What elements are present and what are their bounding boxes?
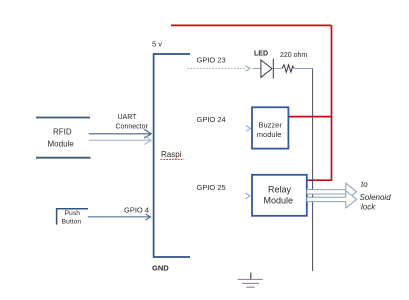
wire 5V branch to relay module <box>307 179 333 181</box>
svg-text:GPIO 25: GPIO 25 <box>197 183 226 192</box>
svg-text:RFID: RFID <box>53 128 72 137</box>
LED diode symbol D1 <box>261 60 272 78</box>
svg-text:Buzzer: Buzzer <box>259 121 283 130</box>
svg-text:220 ohm: 220 ohm <box>280 52 307 59</box>
wire series rail vertical down <box>312 69 314 272</box>
resistor R1 220 ohm zigzag <box>282 65 294 72</box>
wire 5V branch to buzzer module <box>288 116 331 118</box>
block arrow to solenoid 2 <box>307 191 357 208</box>
svg-text:Button: Button <box>62 219 82 226</box>
wire UART arrow 1 <box>89 133 150 135</box>
wire GPIO 25 arrowhead at relay <box>246 193 251 199</box>
wire UART arrow 2 <box>89 139 150 141</box>
wire LED anode lead <box>253 67 261 69</box>
svg-text:Connector: Connector <box>116 124 149 131</box>
svg-text:Module: Module <box>48 140 75 149</box>
Raspberry Pi GPIO bus bracket <box>154 54 190 257</box>
svg-text:GPIO 24: GPIO 24 <box>197 115 226 124</box>
svg-text:Solenoid: Solenoid <box>360 193 392 202</box>
svg-text:Raspi: Raspi <box>161 150 182 159</box>
svg-text:Relay: Relay <box>268 185 292 195</box>
wire 5V red rail top horizontal <box>171 24 332 26</box>
wire GPIO 24 arrowhead at buzzer <box>246 126 251 132</box>
svg-text:Push: Push <box>65 210 81 217</box>
svg-text:LED: LED <box>254 51 268 58</box>
wire LED cathode lead <box>273 68 281 70</box>
RFID Module bottom edge <box>36 157 91 159</box>
Push Button bracket <box>57 209 88 225</box>
wire GPIO 4 <box>88 216 150 218</box>
ground symbol <box>250 273 252 280</box>
svg-text:to: to <box>361 180 368 189</box>
wire resistor to down rail horizontal <box>295 68 313 70</box>
relay module box U3 <box>252 175 307 216</box>
wire 5V red rail right vertical <box>331 25 333 180</box>
svg-text:lock: lock <box>361 203 376 212</box>
svg-text:GPIO 23: GPIO 23 <box>197 56 226 65</box>
RFID Module top edge <box>36 117 90 119</box>
svg-text:GPIO 4: GPIO 4 <box>124 206 149 215</box>
svg-text:Module: Module <box>264 196 294 206</box>
spellcheck squiggle under Raspi <box>161 158 185 160</box>
buzzer module box U2 <box>252 107 288 148</box>
block arrow to solenoid 1 <box>307 183 357 200</box>
wire GPIO 23 dashed <box>188 67 247 69</box>
svg-text:module: module <box>257 130 282 139</box>
svg-text:5 v: 5 v <box>152 40 162 49</box>
svg-text:GND: GND <box>152 264 169 273</box>
svg-text:UART: UART <box>118 114 138 121</box>
